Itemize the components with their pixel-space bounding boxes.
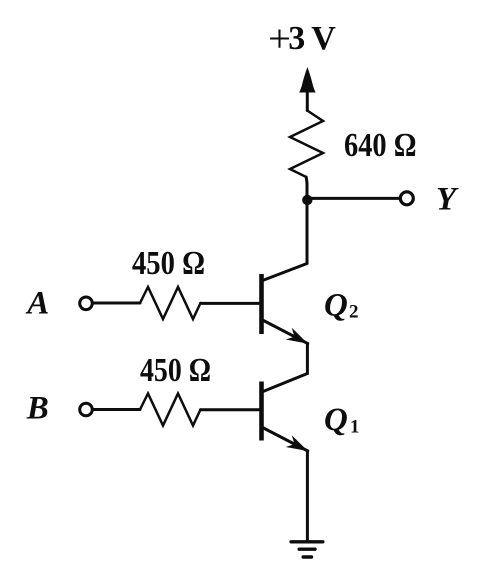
wire Q1 emitter to ground [306,451,309,542]
Q1 emitter line [263,428,308,452]
wire node down to Q2 collector [263,199,308,281]
wire arrow to resistor [306,90,309,111]
Q2 emitter line [263,320,308,344]
ground [291,542,323,557]
Q2 emitter arrow [286,328,308,344]
terminal B (open circle) [80,403,93,416]
svg-text:1: 1 [350,417,360,438]
wire resistor to node [305,177,309,199]
wire A to resistor [93,302,140,305]
label Q1 [324,402,360,438]
power arrow [299,67,316,93]
transistor Q1 base bar [259,382,264,441]
wire resistor to Q1 base [201,408,260,411]
svg-text:B: B [26,391,49,427]
svg-text:2: 2 [349,302,359,323]
svg-text:A: A [25,286,49,322]
svg-text:+3V: +3V [268,18,336,61]
svg-text:Y: Y [436,181,459,217]
svg-text:640 Ω: 640 Ω [344,127,417,164]
wire resistor to Q2 base [201,302,260,305]
terminal A (open circle) [80,297,93,310]
node (junction dot) [302,195,312,205]
Q1 emitter arrow [286,435,308,451]
terminal Y (open circle) [400,192,413,205]
resistor R 640 ohm [290,111,323,178]
svg-text:450 Ω: 450 Ω [140,352,211,389]
wire B to resistor [93,408,140,411]
resistor RA 450 ohm [140,287,201,319]
wire node to output Y [307,197,400,200]
svg-text:Q: Q [324,288,348,324]
svg-text:450 Ω: 450 Ω [132,245,205,282]
wire Q2 emitter to Q1 collector [263,344,307,392]
transistor Q2 base bar [259,274,264,334]
svg-text:Q: Q [324,402,348,438]
resistor RB 450 ohm [140,394,201,426]
label Q2 [324,288,359,324]
